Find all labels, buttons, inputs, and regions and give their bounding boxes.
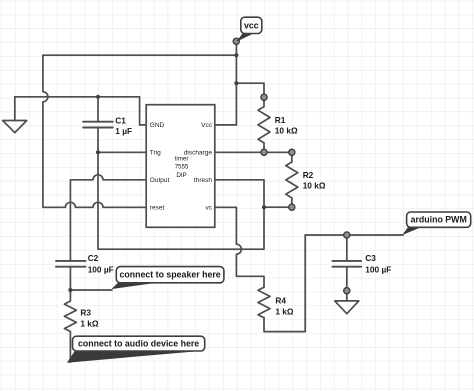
svg-text:Output: Output <box>150 177 170 184</box>
svg-text:R1: R1 <box>275 115 286 125</box>
svg-text:connect to speaker here: connect to speaker here <box>119 270 220 280</box>
svg-text:10 kΩ: 10 kΩ <box>275 126 298 136</box>
wire output pin to C2 with hop <box>70 175 146 260</box>
node R2 top terminal <box>289 149 295 155</box>
wire branch to R1 top <box>236 83 264 94</box>
node C3 bottom terminal <box>344 288 350 294</box>
callout connect to audio device here <box>67 336 205 363</box>
svg-text:100 µF: 100 µF <box>365 264 391 274</box>
resistor R4 <box>258 287 270 317</box>
svg-text:arduino PWM: arduino PWM <box>411 215 467 225</box>
svg-text:10 kΩ: 10 kΩ <box>303 181 326 191</box>
wire junction to R2 bottom <box>264 206 292 208</box>
callout connect to speaker here <box>111 267 224 290</box>
svg-text:R4: R4 <box>275 296 286 306</box>
wire top VCC rail <box>43 54 237 56</box>
resistor R3 <box>64 290 76 362</box>
node Trig junction <box>96 150 100 154</box>
wire R4 bottom up to PWM rail <box>264 235 305 332</box>
svg-text:7555: 7555 <box>175 164 189 171</box>
wire vc pin to R4 with hop over link wire <box>215 207 264 287</box>
svg-text:Vcc: Vcc <box>201 122 213 129</box>
IC U1 timer 7555 DIP body <box>146 105 215 228</box>
capacitor C3 <box>332 238 361 288</box>
ground stub right <box>346 294 348 301</box>
svg-text:1 kΩ: 1 kΩ <box>275 306 294 316</box>
svg-text:C2: C2 <box>88 253 99 263</box>
node thresh junction <box>262 205 266 209</box>
svg-text:1 µF: 1 µF <box>115 126 132 136</box>
svg-text:R3: R3 <box>80 308 91 318</box>
svg-text:vcc: vcc <box>244 20 259 30</box>
ground stub left <box>14 97 16 121</box>
svg-text:R2: R2 <box>303 170 314 180</box>
callout arduino PWM <box>402 212 471 235</box>
svg-text:connect to audio device here: connect to audio device here <box>78 339 199 349</box>
svg-text:GND: GND <box>150 122 165 129</box>
terminal circles <box>233 38 350 294</box>
resistor R1 <box>258 100 270 149</box>
svg-text:1 kΩ: 1 kΩ <box>80 318 99 328</box>
wire discharge to R1/R2 <box>215 151 292 153</box>
svg-text:vc: vc <box>206 205 213 212</box>
svg-text:100 µF: 100 µF <box>88 264 114 274</box>
node C1 top junction <box>96 95 100 99</box>
svg-text:DIP: DIP <box>176 172 186 179</box>
wire ground rail to GND pin <box>15 97 146 125</box>
svg-text:Trig: Trig <box>150 150 161 157</box>
wire vcc column down to Vcc pin <box>215 44 237 125</box>
svg-text:C3: C3 <box>365 253 376 263</box>
IC pin labels <box>150 122 213 211</box>
node vcc terminal <box>233 38 239 44</box>
node R1 branch junction <box>234 81 238 85</box>
callout vcc <box>236 17 261 42</box>
svg-text:thresh: thresh <box>194 177 212 184</box>
svg-text:timer: timer <box>175 155 189 162</box>
resistor R2 <box>286 155 298 204</box>
component value labels <box>80 115 391 328</box>
svg-text:C1: C1 <box>115 115 126 125</box>
capacitor C1 <box>83 97 113 153</box>
node vcc rail junction <box>234 53 238 57</box>
wire PWM rail <box>305 234 403 236</box>
ground symbol right <box>335 301 359 314</box>
wire thresh-trig link: thresh pin right, down, across, up to Trig pin <box>98 152 264 249</box>
node R2 bottom terminal <box>289 204 295 210</box>
node R1 bottom terminal <box>261 149 267 155</box>
wire vcc-to-reset vertical with hop over ground rail, then reset run with hops <box>43 55 146 207</box>
node C2-R3 junction <box>68 288 72 292</box>
ground symbol left <box>3 121 27 133</box>
node R1 top terminal <box>261 94 267 100</box>
svg-text:reset: reset <box>150 205 165 212</box>
node C3 top terminal <box>344 232 350 238</box>
capacitor C2 <box>56 261 86 290</box>
wire speaker stub <box>70 289 112 291</box>
